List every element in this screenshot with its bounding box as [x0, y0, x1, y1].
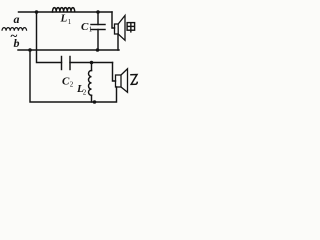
label jia (speaker A) [127, 23, 135, 33]
node dot L2 bottom [93, 100, 97, 104]
svg-text:1: 1 [68, 18, 72, 26]
wire C1 bottom lead [97, 30, 99, 51]
speaker yi [116, 69, 128, 93]
node dot C1 bottom [96, 48, 100, 52]
wire top from terminal a to L1 [19, 11, 53, 13]
svg-text:2: 2 [70, 81, 74, 89]
svg-text:a: a [14, 12, 20, 26]
inductor L2 [89, 71, 92, 96]
background [0, 0, 140, 107]
node dot C1 top [96, 10, 100, 14]
wire top from L1 to corner [53, 11, 113, 13]
wire outer bottom loop [30, 50, 117, 102]
wire L2 lead from node B [91, 63, 93, 71]
capacitor C1 [91, 24, 105, 26]
node dot b junction [28, 48, 32, 52]
wire vertical from node A down to C2 branch [37, 12, 62, 63]
node dot top junction [35, 10, 39, 14]
wire right side down to speaker jia [112, 12, 115, 28]
wire C2 to speaker yi [70, 62, 113, 64]
label yi (speaker B) [130, 75, 137, 85]
wire speaker jia bottom lead [117, 34, 119, 50]
capacitor C2 [61, 57, 63, 70]
svg-text:b: b [14, 36, 20, 50]
svg-text:1: 1 [89, 26, 93, 34]
wire C1 top lead [97, 12, 99, 25]
svg-text:C: C [62, 76, 70, 88]
svg-text:L: L [60, 12, 68, 24]
wire L2 bottom lead [91, 95, 93, 102]
svg-text:2: 2 [83, 89, 87, 97]
node dot L2 top [90, 61, 94, 65]
source squiggle [2, 28, 27, 31]
inductor L1 [53, 8, 75, 12]
wire b terminal line [18, 49, 119, 51]
speaker jia [115, 16, 126, 41]
